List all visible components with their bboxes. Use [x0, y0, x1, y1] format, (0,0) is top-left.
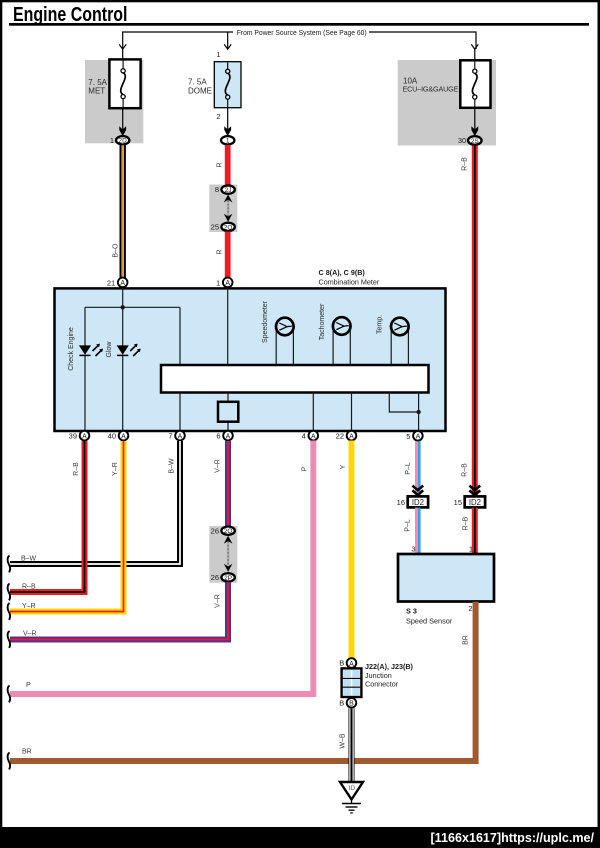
svg-text:A: A [349, 661, 354, 668]
svg-text:1: 1 [216, 50, 220, 59]
wire branch to check engine LED [84, 307, 86, 430]
wire through ECU fuse [474, 49, 476, 131]
wire below DOME fuse [227, 108, 229, 131]
combination meter box C8(A) C9(B) [55, 288, 446, 431]
connector 2P [211, 573, 235, 582]
svg-text:B: B [349, 701, 354, 708]
svg-text:26: 26 [211, 573, 219, 582]
svg-text:5: 5 [406, 432, 410, 441]
connector 2Q (lower section) [211, 526, 235, 535]
wire BR from speed sensor pin 2 to left edge [10, 602, 476, 761]
continuation squiggle P [8, 686, 11, 703]
wire R from connector 1 to 2J [216, 145, 227, 186]
connector 1 (DOME) [221, 136, 234, 145]
continuation squiggle R-B [8, 584, 11, 601]
speed sensor box S3 [398, 544, 494, 625]
svg-text:A: A [311, 433, 316, 440]
svg-text:B: B [339, 659, 344, 668]
wire Y from pin 22 to junction connector [340, 441, 352, 659]
svg-text:P–L: P–L [405, 462, 412, 475]
meter pin 7(A) [168, 431, 184, 441]
svg-text:1: 1 [110, 136, 114, 145]
svg-text:3: 3 [411, 544, 415, 553]
wire R-B from ID2 to speed sensor [463, 508, 475, 554]
double-head arrow between 2J and 2Q [224, 195, 233, 222]
svg-text:2: 2 [468, 604, 472, 613]
wire P-L from ID2 to speed sensor [405, 508, 420, 554]
solid arrowhead into connector 2D [119, 126, 126, 136]
svg-text:A: A [226, 433, 231, 440]
svg-text:R: R [216, 162, 223, 167]
svg-text:A: A [349, 433, 354, 440]
meter pin 22(A) [336, 431, 357, 441]
connector 2S [458, 136, 482, 145]
tachometer gauge [333, 317, 351, 365]
svg-text:R: R [216, 249, 223, 254]
svg-text:B–W: B–W [168, 458, 175, 474]
ID2 box (right) [454, 496, 485, 507]
connector block 2J/2Q background [209, 185, 237, 233]
wire R-B from 2S down right side to ID2 [462, 146, 475, 498]
wire W-B from junction connector to ground [340, 708, 352, 782]
svg-text:16: 16 [397, 498, 405, 507]
internal wire from pin 21 with branch [85, 288, 180, 307]
connector 2D [110, 136, 130, 145]
meter pin 4(A) [302, 431, 318, 441]
svg-text:P: P [26, 682, 31, 689]
wire V-R from pin 6 to connector 2Q [215, 441, 229, 526]
svg-text:[1166x1617]https://uplc.me/: [1166x1617]https://uplc.me/ [431, 830, 595, 845]
svg-text:A: A [121, 433, 126, 440]
svg-text:From Power Source System (See: From Power Source System (See Page 60) [237, 28, 367, 37]
meter pin 6(A) [216, 431, 232, 441]
svg-text:Glow: Glow [106, 341, 113, 358]
junction connector pin B(B) [339, 698, 356, 708]
svg-text:A: A [120, 280, 125, 287]
fuse ECU-IG labels [403, 76, 459, 93]
fuse block 7.5A MET background [85, 60, 143, 143]
svg-text:39: 39 [69, 432, 77, 441]
fuse block 10A ECU-IG&GAUGE background [398, 60, 496, 146]
svg-text:V–R: V–R [215, 459, 222, 473]
LED glow [117, 344, 141, 356]
wire V-R from 2P to left edge [10, 582, 228, 639]
fuse MET symbol [109, 59, 140, 108]
svg-text:R–B: R–B [462, 157, 469, 171]
svg-text:ID2: ID2 [412, 498, 424, 507]
svg-text:R–B: R–B [22, 584, 36, 591]
continuation squiggle BR [8, 753, 11, 770]
fuse 7.5A DOME symbol [214, 62, 241, 108]
svg-text:4: 4 [302, 432, 306, 441]
open arrowhead into DOME fuse [224, 44, 231, 49]
wire R-B from pin 39 to left edge [10, 441, 85, 592]
svg-text:Temp.: Temp. [377, 315, 384, 334]
svg-text:A: A [178, 433, 183, 440]
junction connector J22(A), J23(B) grid [342, 668, 362, 697]
connector block 2Q/2P background [209, 526, 237, 583]
wire bus to pin 7 [179, 393, 181, 431]
junction connector labels [365, 662, 414, 688]
meter pin 1(A) [216, 278, 232, 288]
temp gauge [391, 318, 409, 365]
svg-text:25: 25 [211, 223, 219, 232]
svg-text:Y–R: Y–R [112, 462, 119, 476]
square symbol above pin 6 [218, 402, 238, 422]
speedometer gauge [276, 318, 294, 365]
connector 2J [215, 185, 235, 194]
svg-text:22: 22 [336, 432, 344, 441]
wire B-O from 2D to meter pin 21 [113, 145, 123, 277]
wire P-L from pin 5 to ID2 [405, 441, 419, 497]
fuse 7.5A MET label [88, 78, 107, 96]
svg-text:2S: 2S [471, 138, 480, 145]
ground symbol ID [340, 782, 363, 813]
wire bus to pin 4 [312, 393, 314, 431]
svg-text:Speed Sensor: Speed Sensor [406, 616, 453, 625]
svg-text:2Q: 2Q [224, 224, 233, 231]
svg-text:8: 8 [215, 185, 219, 194]
svg-text:MET: MET [88, 87, 105, 96]
svg-text:6: 6 [216, 432, 220, 441]
svg-text:1: 1 [469, 544, 473, 553]
svg-text:A: A [225, 280, 230, 287]
open arrowhead into MET fuse [119, 44, 126, 49]
wire R from 2Q to meter pin 1 [216, 232, 227, 278]
svg-text:Y: Y [340, 464, 347, 469]
LED check engine [79, 344, 103, 356]
meter pin 21(A) [107, 278, 128, 288]
svg-text:2J: 2J [225, 187, 232, 194]
svg-text:1: 1 [226, 138, 230, 145]
meter pin 39(A) [69, 431, 90, 441]
svg-text:ECU–IG&GAUGE: ECU–IG&GAUGE [403, 85, 459, 94]
chevron arrow into ID2 (right) [469, 486, 480, 495]
wire Y-R from pin 40 to left edge [10, 441, 124, 612]
svg-text:Check Engine: Check Engine [68, 327, 75, 371]
svg-text:C 8(A), C 9(B): C 8(A), C 9(B) [319, 268, 366, 277]
svg-text:R–B: R–B [73, 462, 80, 476]
svg-text:R–B: R–B [462, 463, 469, 477]
svg-text:Combination Meter: Combination Meter [319, 278, 380, 287]
wire through glow LED [122, 307, 124, 430]
svg-text:B–O: B–O [113, 243, 120, 258]
svg-text:A: A [82, 433, 87, 440]
svg-text:V–R: V–R [23, 631, 37, 638]
svg-text:BR: BR [462, 635, 469, 645]
svg-text:Tachometer: Tachometer [319, 303, 326, 340]
wires bus to pin 5 with L branch [389, 393, 418, 431]
svg-text:26: 26 [211, 526, 219, 535]
open arrowhead into ECU-IG fuse [471, 44, 478, 49]
wire pin1 to bus [227, 288, 229, 365]
fuse DOME labels [188, 50, 221, 121]
svg-text:ID2: ID2 [469, 498, 481, 507]
svg-text:B–W: B–W [21, 556, 37, 563]
svg-text:2: 2 [216, 112, 220, 121]
wire B-W from pin 7 to left edge [10, 441, 180, 564]
svg-text:2P: 2P [224, 575, 232, 582]
continuation squiggle B-W [8, 556, 11, 573]
svg-text:P: P [301, 466, 308, 471]
svg-text:B: B [339, 698, 344, 707]
ID2 box (left) [397, 496, 428, 507]
svg-text:BR: BR [22, 749, 32, 756]
continuation squiggle Y-R [8, 603, 11, 620]
junction connector pin B(A) [339, 658, 356, 668]
svg-text:30: 30 [458, 136, 466, 145]
svg-text:ID: ID [349, 785, 356, 792]
fuse ECU-IG symbol [460, 60, 490, 108]
combination meter header text [319, 268, 380, 287]
continuation squiggle V-R [8, 631, 11, 648]
wire branch to bus at x=180 [179, 307, 181, 365]
svg-text:Engine Control: Engine Control [13, 4, 128, 26]
connector 2Q (top section) [211, 223, 235, 232]
svg-text:A: A [416, 434, 421, 441]
svg-text:15: 15 [454, 498, 462, 507]
svg-text:1: 1 [216, 278, 220, 287]
svg-text:40: 40 [108, 432, 116, 441]
svg-text:Speedometer: Speedometer [262, 300, 269, 343]
title Engine Control [9, 4, 589, 26]
double-head arrow between 2Q and 2P [224, 536, 233, 572]
wire through MET fuse [122, 49, 124, 131]
svg-text:2D: 2D [119, 138, 128, 145]
junction dot [121, 305, 125, 309]
wire bus to pin 22 [351, 393, 353, 431]
solid arrowhead into connector 2S [471, 126, 478, 136]
svg-text:DOME: DOME [188, 86, 212, 95]
solid arrowhead into connector 1 [224, 126, 231, 136]
svg-text:W–B: W–B [340, 733, 347, 749]
svg-text:7: 7 [168, 432, 172, 441]
power source feed line [123, 27, 476, 49]
svg-text:V–R: V–R [215, 594, 222, 608]
svg-text:Connector: Connector [365, 679, 399, 688]
svg-text:S 3: S 3 [406, 607, 417, 616]
meter pin 5(A) [406, 431, 422, 441]
meter pin 40(A) [108, 431, 129, 441]
svg-text:21: 21 [107, 278, 115, 287]
svg-text:2Q: 2Q [224, 528, 233, 535]
internal bus bar [161, 365, 429, 393]
bottom watermark bar [0, 827, 600, 848]
wire P from pin 4 to left edge [10, 441, 313, 695]
svg-text:R–B: R–B [463, 516, 470, 530]
svg-text:Y–R: Y–R [22, 603, 36, 610]
chevron arrow into ID2 (left) [412, 486, 423, 495]
junction dot near pin 5 [416, 410, 420, 414]
wire bus to square symbol to pin 6 [227, 393, 229, 431]
svg-text:P–L: P–L [405, 519, 412, 532]
